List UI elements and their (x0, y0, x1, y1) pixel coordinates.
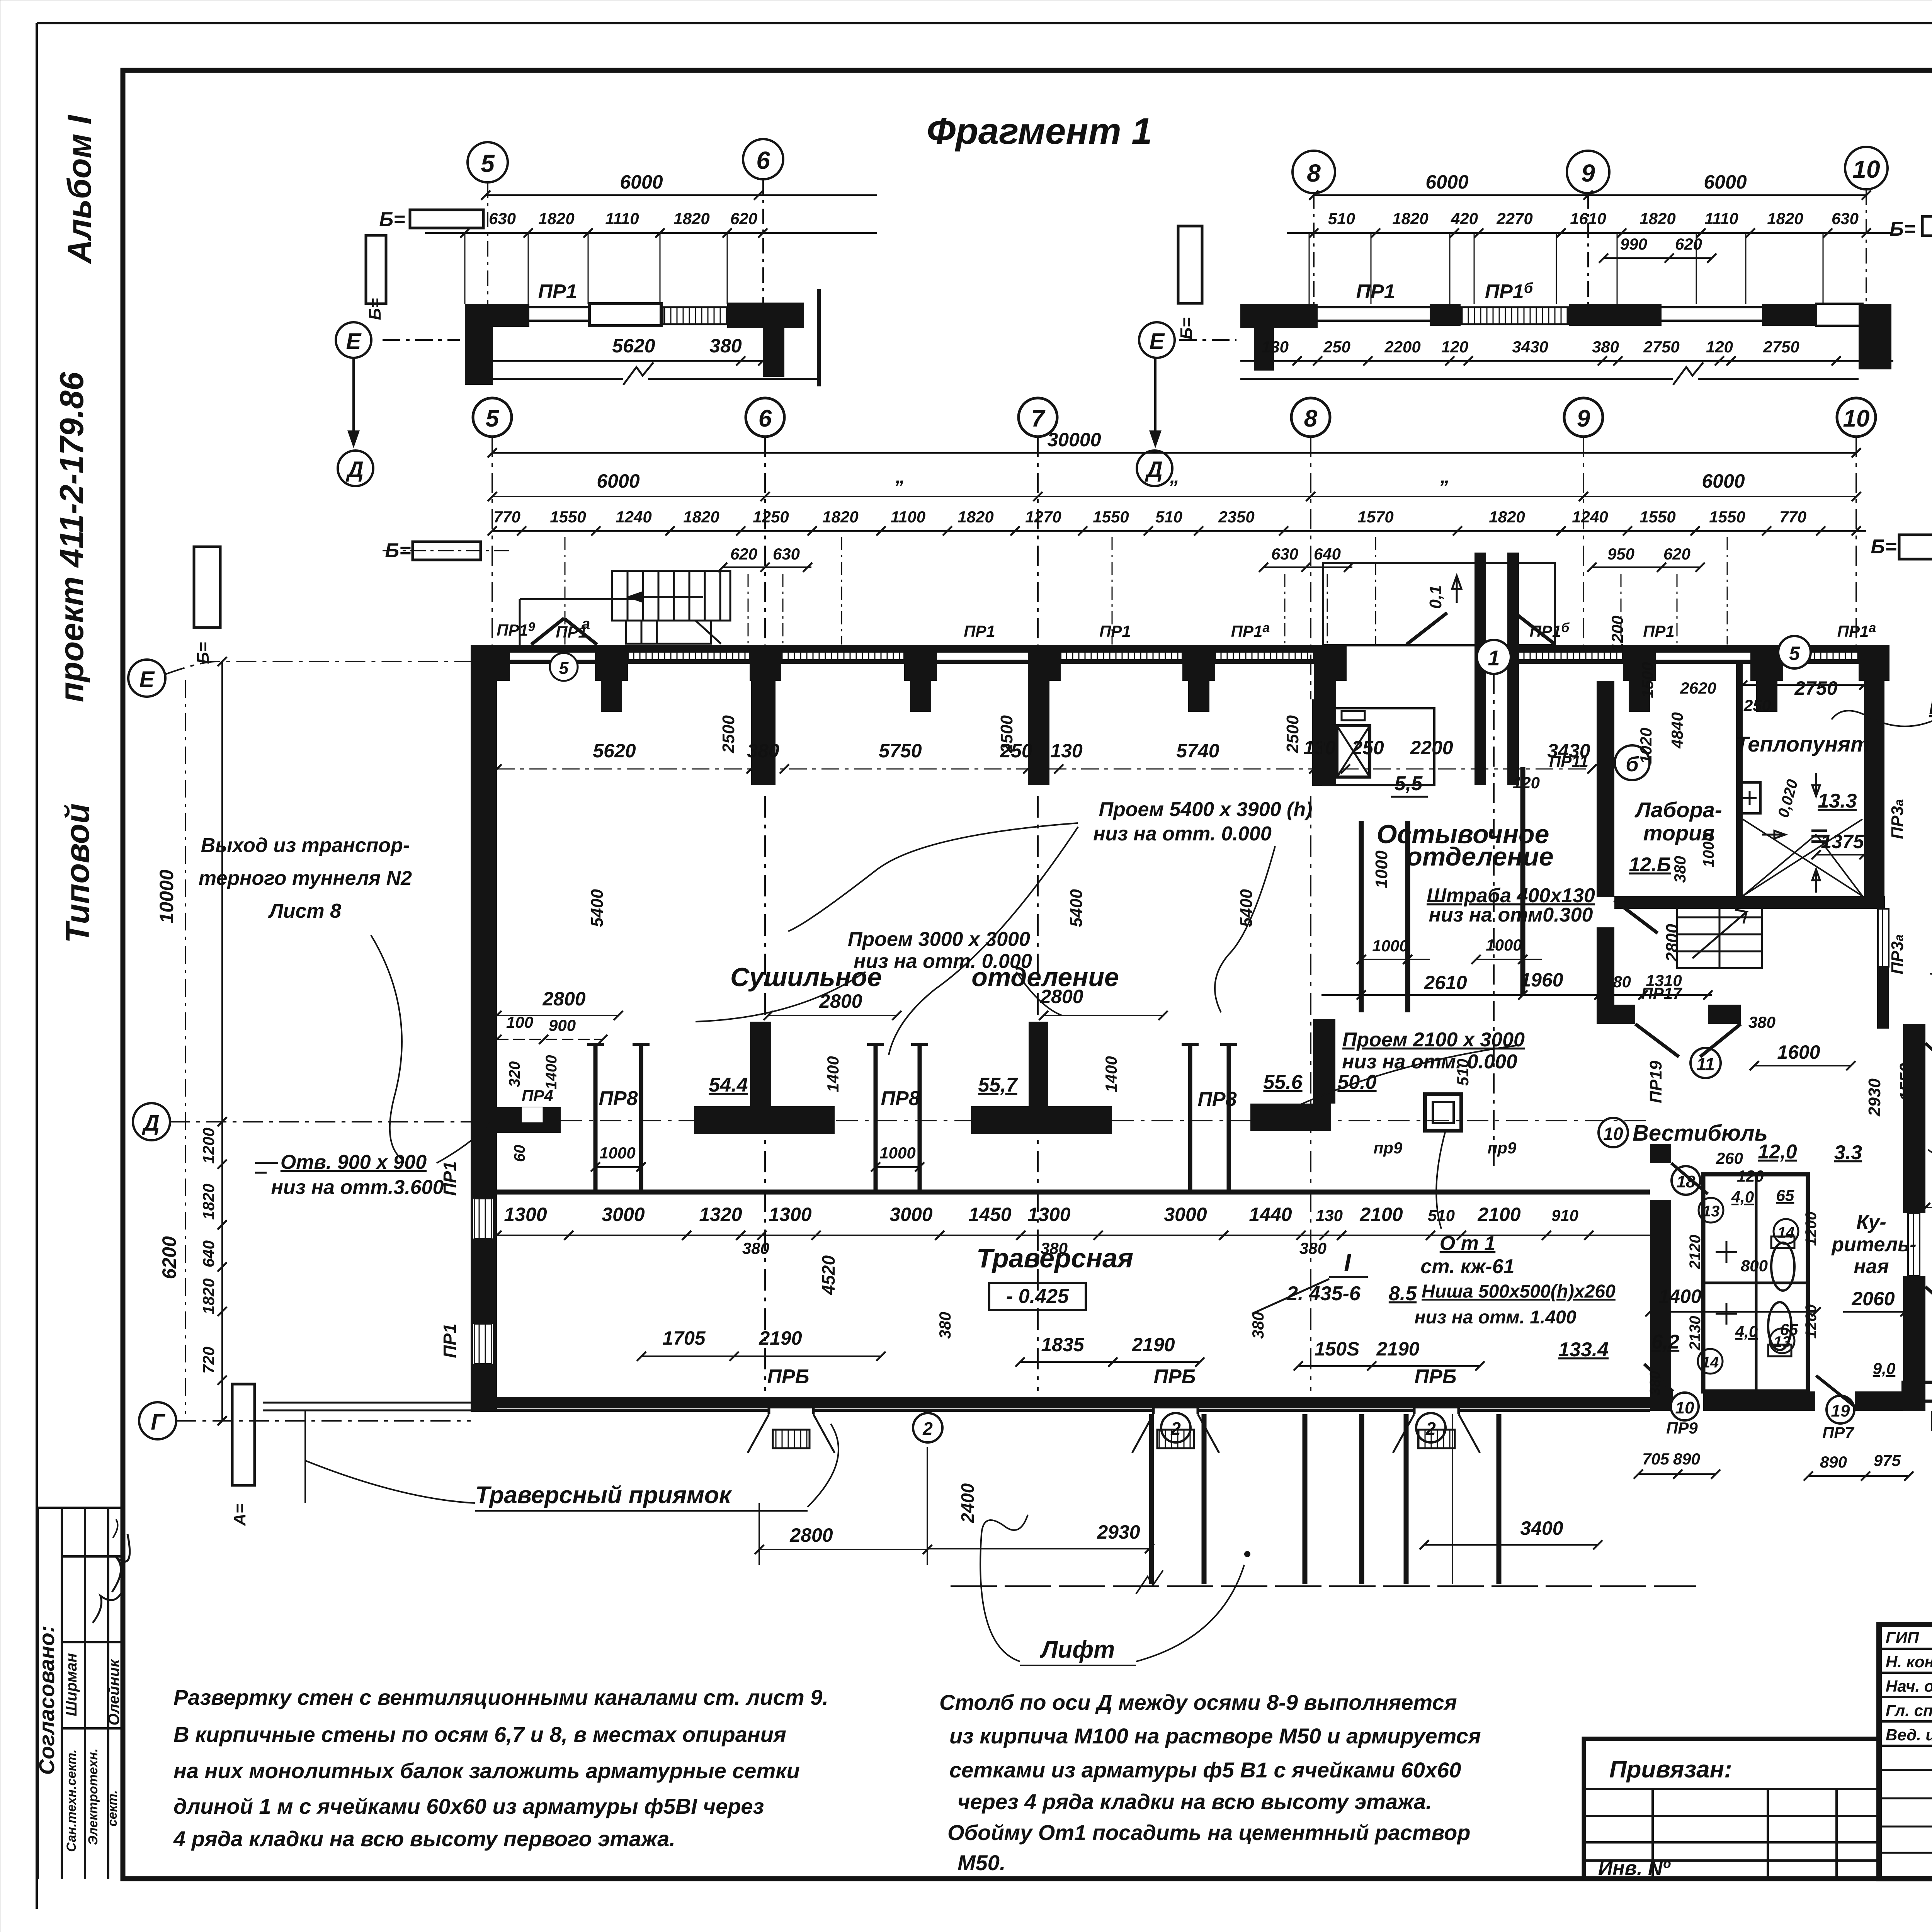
outside stair top-left (612, 571, 730, 644)
svg-text:420: 420 (1451, 209, 1478, 228)
Привязан box (1584, 1739, 1879, 1879)
svg-text:1000: 1000 (1486, 936, 1522, 954)
svg-text:120: 120 (1706, 338, 1733, 356)
axis circle Е (128, 660, 165, 697)
svg-text:А=: А= (230, 1503, 249, 1526)
svg-text:6: 6 (756, 146, 770, 174)
svg-text:ПР9: ПР9 (1666, 1419, 1698, 1437)
svg-text:5: 5 (486, 405, 500, 432)
svg-text:6000: 6000 (620, 171, 663, 193)
svg-text:3400: 3400 (1520, 1517, 1563, 1539)
svg-text:6000: 6000 (597, 470, 639, 492)
entrance canopy outline (1323, 563, 1555, 645)
svg-text:низ на отм. 1.400: низ на отм. 1.400 (1415, 1307, 1577, 1328)
ПР8 post pair 2 (876, 1044, 920, 1190)
svg-text:990: 990 (1620, 235, 1647, 253)
svg-text:1550: 1550 (1709, 508, 1745, 526)
svg-text:ритель-: ритель- (1831, 1233, 1916, 1256)
svg-text:2350: 2350 (1218, 508, 1254, 526)
svg-text:ГИП: ГИП (1886, 1628, 1919, 1646)
svg-text:Б=: Б= (379, 208, 405, 231)
right wall strip plan (1309, 233, 1823, 304)
svg-text:630: 630 (773, 545, 800, 563)
svg-text:1300: 1300 (1027, 1204, 1070, 1225)
svg-text:Перегородка толщ. 250: Перегородка толщ. 250 (1929, 696, 1932, 719)
svg-text:5: 5 (481, 150, 495, 177)
svg-text:Развертку стен с вентиляцио: Развертку стен с вентиляционными каналам… (173, 1685, 828, 1709)
svg-text:Б=: Б= (366, 298, 384, 320)
svg-text:320: 320 (506, 1061, 523, 1087)
svg-text:150S: 150S (1315, 1338, 1360, 1360)
svg-text:2120: 2120 (1687, 1235, 1704, 1270)
svg-text:1110: 1110 (1704, 209, 1738, 228)
svg-text:1820: 1820 (1392, 209, 1428, 228)
svg-text:1820: 1820 (1767, 209, 1803, 228)
svg-text:1820: 1820 (538, 209, 574, 228)
vestibule top wall with door 11 (1597, 1005, 1635, 1024)
dim 6000 row (492, 496, 1856, 497)
dashed approach line top-left (520, 599, 643, 649)
svg-text:380: 380 (1299, 1239, 1327, 1257)
svg-text:„: „ (1440, 466, 1450, 487)
grid axis drops (492, 437, 1856, 699)
svg-text:Выход из транспор-: Выход из транспор- (201, 834, 410, 857)
svg-text:2610: 2610 (1423, 972, 1467, 993)
svg-text:1500: 1500 (1638, 662, 1656, 698)
section mark Е Д right (1139, 322, 1175, 358)
axis circle 10 (1845, 147, 1888, 189)
svg-text:ПР19: ПР19 (1646, 1061, 1665, 1103)
axis circle 6 (743, 139, 783, 179)
svg-text:2400: 2400 (957, 1483, 978, 1523)
svg-text:1960: 1960 (1520, 969, 1563, 991)
svg-text:380: 380 (1671, 856, 1689, 883)
stair right wing (1677, 900, 1762, 968)
grid circle 5 (473, 398, 512, 437)
svg-text:2500: 2500 (719, 715, 738, 753)
ПР6 openings with funnels (769, 1398, 1459, 1414)
svg-text:60: 60 (511, 1145, 528, 1162)
dim 6000 6000 (1314, 194, 1866, 196)
svg-text:тория: тория (1643, 821, 1715, 845)
svg-text:2620: 2620 (1680, 679, 1716, 697)
svg-text:1000: 1000 (1372, 937, 1408, 955)
svg-text:1610: 1610 (1570, 209, 1606, 228)
entrance swings near axis 1 (1406, 613, 1555, 645)
svg-text:120: 120 (1513, 774, 1540, 792)
grid circle 7 (1019, 398, 1057, 437)
dim 6000 (486, 194, 877, 196)
svg-text:ная: ная (1854, 1255, 1889, 1278)
svg-text:380: 380 (742, 1239, 769, 1257)
svg-text:890: 890 (1673, 1450, 1700, 1468)
svg-text:250: 250 (1323, 338, 1350, 356)
axis 1 circle (1477, 640, 1511, 674)
grid circle 6 (746, 398, 784, 437)
circle 6 door mark (1615, 745, 1650, 780)
top wall window hatches (628, 650, 1859, 660)
svg-text:1000: 1000 (879, 1144, 915, 1162)
svg-text:130: 130 (1262, 338, 1289, 356)
svg-text:380: 380 (709, 335, 742, 357)
svg-text:2190: 2190 (759, 1327, 802, 1349)
dim 30000 (492, 452, 1856, 454)
svg-text:380: 380 (747, 740, 779, 762)
T column at axis 6 (694, 1022, 835, 1134)
svg-text:1300: 1300 (504, 1204, 547, 1225)
axis dash lines through hall (765, 796, 1311, 1391)
svg-text:Лист 8: Лист 8 (268, 900, 341, 922)
plus box fixture (1739, 782, 1760, 813)
svg-text:1550: 1550 (1093, 508, 1129, 526)
svg-text:5: 5 (1789, 643, 1800, 664)
svg-text:7: 7 (1031, 405, 1046, 432)
svg-text:133.4: 133.4 (1558, 1338, 1609, 1361)
svg-text:2100: 2100 (1359, 1204, 1403, 1225)
dim 5620 380 (488, 360, 763, 362)
svg-text:6000: 6000 (1702, 470, 1745, 492)
svg-text:1820: 1820 (957, 508, 993, 526)
svg-text:сект.: сект. (105, 1790, 120, 1827)
svg-text:5400: 5400 (1237, 889, 1256, 927)
svg-text:Д: Д (345, 457, 364, 482)
svg-text:Теплопунят: Теплопунят (1735, 732, 1870, 756)
svg-text:65: 65 (1776, 1186, 1794, 1204)
svg-text:8.5: 8.5 (1389, 1282, 1417, 1305)
svg-text:620: 620 (1675, 235, 1702, 253)
circle 10 left (1599, 1118, 1628, 1147)
svg-text:низ на отм0.300: низ на отм0.300 (1429, 904, 1593, 926)
svg-text:3000: 3000 (1164, 1204, 1207, 1225)
svg-text:5: 5 (559, 659, 569, 678)
svg-text:130: 130 (1050, 740, 1083, 762)
svg-text:1835: 1835 (1041, 1334, 1084, 1355)
bottom exterior wall (471, 1397, 1650, 1408)
svg-text:5740: 5740 (1176, 740, 1219, 762)
svg-text:ПР8: ПР8 (599, 1087, 638, 1110)
svg-text:3000: 3000 (889, 1204, 932, 1225)
axis circle Г (139, 1402, 176, 1439)
window axis dashed drops (565, 537, 1727, 645)
svg-text:Альбом I: Альбом I (61, 114, 98, 264)
svg-text:55.6: 55.6 (1263, 1071, 1303, 1094)
svg-text:4,0: 4,0 (1735, 1322, 1758, 1340)
svg-text:6200: 6200 (158, 1236, 180, 1279)
svg-text:Ниша 500х500(h)х260: Ниша 500х500(h)х260 (1422, 1281, 1616, 1302)
svg-text:1240: 1240 (1572, 508, 1608, 526)
WC block (1703, 1174, 1808, 1391)
svg-text:800: 800 (1741, 1257, 1768, 1275)
svg-text:1000: 1000 (599, 1144, 635, 1162)
vertical dim line left (221, 662, 223, 1421)
svg-text:1450: 1450 (968, 1204, 1011, 1225)
svg-text:5620: 5620 (612, 335, 655, 357)
svg-text:1570: 1570 (1357, 508, 1393, 526)
svg-text:2190: 2190 (1376, 1338, 1419, 1360)
svg-text:5620: 5620 (593, 740, 636, 762)
Om1 square column (1425, 1094, 1461, 1131)
ПР8 post pair 3 (1190, 1044, 1229, 1190)
svg-text:проект 411-2-179.86: проект 411-2-179.86 (53, 372, 90, 702)
svg-text:Гл. спец: Гл. спец (1886, 1701, 1932, 1719)
svg-text:1200: 1200 (1803, 1304, 1820, 1339)
svg-text:510: 510 (1155, 508, 1182, 526)
svg-text:1000: 1000 (1372, 850, 1391, 888)
svg-text:1705: 1705 (662, 1327, 706, 1349)
svg-text:1600: 1600 (1777, 1041, 1820, 1063)
svg-text:1550: 1550 (550, 508, 586, 526)
svg-text:3.3: 3.3 (1834, 1141, 1862, 1164)
svg-text:9: 9 (1577, 405, 1590, 432)
svg-text:ПРБ: ПРБ (1415, 1366, 1457, 1388)
svg-text:250: 250 (1000, 740, 1032, 762)
svg-text:Ширман: Ширман (63, 1653, 80, 1716)
svg-text:1400: 1400 (1102, 1056, 1120, 1092)
svg-text:720: 720 (199, 1347, 218, 1374)
svg-text:11: 11 (1696, 1054, 1715, 1074)
svg-text:Е: Е (346, 329, 362, 354)
svg-text:2: 2 (922, 1418, 933, 1439)
svg-text:2190: 2190 (1131, 1334, 1175, 1355)
axis 1 tower walls (1475, 553, 1486, 785)
svg-text:ПР1: ПР1 (1356, 281, 1395, 303)
svg-text:Лифт: Лифт (1040, 1636, 1115, 1663)
svg-text:Б=: Б= (1177, 318, 1196, 340)
svg-text:Электротехн.: Электротехн. (86, 1748, 100, 1845)
svg-text:2800: 2800 (1663, 924, 1682, 962)
svg-text:13.3: 13.3 (1818, 790, 1857, 812)
svg-text:1110: 1110 (605, 209, 639, 228)
ПР8 post pair 1 (595, 1044, 641, 1190)
svg-text:2: 2 (1170, 1418, 1181, 1439)
tall Б niche far left (194, 547, 220, 628)
svg-text:2930: 2930 (1097, 1521, 1140, 1543)
2 circles (913, 1413, 942, 1442)
svg-text:4,0: 4,0 (1731, 1188, 1754, 1206)
svg-text:2800: 2800 (542, 988, 585, 1010)
svg-text:ПР17: ПР17 (1641, 984, 1683, 1002)
svg-text:низ на отт. 0.000: низ на отт. 0.000 (854, 950, 1032, 973)
svg-text:5400: 5400 (588, 889, 607, 927)
svg-text:2750: 2750 (1794, 677, 1837, 699)
svg-text:Привязан:: Привязан: (1609, 1756, 1732, 1783)
svg-text:120: 120 (1441, 338, 1468, 356)
svg-text:5400: 5400 (1067, 889, 1086, 927)
svg-text:260: 260 (1716, 1149, 1743, 1167)
hall right wall (1597, 681, 1614, 897)
svg-text:380: 380 (1592, 338, 1619, 356)
svg-text:6000: 6000 (1425, 171, 1468, 193)
svg-text:5750: 5750 (879, 740, 922, 762)
chain under interior wall (497, 1235, 1650, 1236)
svg-text:510: 510 (1428, 1206, 1455, 1225)
bottom wall of block (1650, 1391, 1673, 1411)
svg-text:а: а (582, 616, 590, 633)
svg-text:1400: 1400 (543, 1055, 560, 1090)
svg-text:10: 10 (1675, 1398, 1694, 1417)
sub dims 620 630 pairs (723, 566, 1700, 568)
svg-text:10: 10 (1852, 155, 1880, 183)
svg-text:975: 975 (1874, 1451, 1901, 1469)
door swing marks at top-left entrance (531, 618, 597, 645)
svg-text:12,0: 12,0 (1758, 1141, 1797, 1163)
axis circle 8 (1293, 151, 1335, 193)
svg-text:6,2: 6,2 (1651, 1331, 1679, 1353)
svg-text:380: 380 (936, 1312, 954, 1339)
svg-text:2750: 2750 (1763, 338, 1799, 356)
lab walls (1614, 896, 1885, 909)
tall niche rect (366, 235, 386, 304)
svg-text:Вед. инж.: Вед. инж. (1886, 1726, 1932, 1744)
svg-text:Б=: Б= (1871, 536, 1896, 558)
svg-text:8: 8 (1304, 405, 1318, 432)
svg-text:1100: 1100 (891, 508, 925, 526)
svg-text:Б=: Б= (194, 642, 213, 664)
porch strip bottom left (232, 1384, 255, 1485)
svg-text:1200: 1200 (1803, 1212, 1820, 1246)
svg-text:ПР7: ПР7 (1822, 1423, 1854, 1442)
svg-text:ПР1: ПР1 (1643, 622, 1675, 640)
svg-text:4 ряда кладки на всю высот: 4 ряда кладки на всю высоту первого этаж… (173, 1827, 675, 1851)
svg-text:I: I (1344, 1249, 1351, 1277)
svg-text:ПР1: ПР1 (440, 1323, 460, 1358)
svg-text:сетками из арматуры ф5 В1: сетками из арматуры ф5 В1 с ячейками 60х… (949, 1758, 1461, 1782)
svg-text:1440: 1440 (1249, 1204, 1292, 1225)
svg-text:1: 1 (1488, 646, 1500, 670)
svg-text:1200: 1200 (199, 1128, 218, 1163)
svg-text:1550: 1550 (1639, 508, 1675, 526)
svg-text:Олейник: Олейник (105, 1659, 122, 1726)
section mark Е over Д (336, 322, 371, 358)
svg-text:Лабора-: Лабора- (1634, 798, 1722, 822)
svg-text:низ на отт.3.600: низ на отт.3.600 (271, 1176, 444, 1199)
right wall of block (1903, 1024, 1925, 1213)
svg-text:низ на отт. 0.000: низ на отт. 0.000 (1093, 823, 1272, 845)
svg-text:65: 65 (1780, 1320, 1798, 1338)
svg-text:10: 10 (1603, 1124, 1623, 1144)
svg-text:6000: 6000 (1704, 171, 1747, 193)
svg-text:Г: Г (151, 1410, 165, 1435)
dim chain 630 1820 1110 1820 620 (425, 232, 877, 234)
svg-text:пр9: пр9 (1488, 1139, 1517, 1157)
svg-text:Вестибюль: Вестибюль (1633, 1121, 1768, 1146)
svg-text:1400: 1400 (824, 1056, 842, 1092)
svg-text:Б=: Б= (1889, 218, 1915, 240)
approval stamp table bottom-left (38, 1508, 123, 1879)
svg-text:770: 770 (493, 508, 520, 526)
svg-text:пр9: пр9 (1374, 1139, 1403, 1157)
svg-text:1820: 1820 (199, 1278, 218, 1314)
svg-text:Инв. Nº: Инв. Nº (1598, 1857, 1671, 1879)
dims under right strip (1240, 360, 1893, 362)
svg-text:9,0: 9,0 (1873, 1359, 1895, 1378)
svg-text:1820: 1820 (1639, 209, 1675, 228)
lift shaft (1323, 708, 1434, 785)
svg-text:М50.: М50. (957, 1850, 1006, 1875)
svg-text:14: 14 (1777, 1224, 1795, 1241)
svg-text:910: 910 (1551, 1206, 1578, 1225)
interior long wall (497, 1190, 1650, 1195)
svg-text:14: 14 (1702, 1354, 1719, 1371)
axis circle 9 (1567, 151, 1609, 193)
svg-text:2750: 2750 (1643, 338, 1679, 356)
svg-text:890: 890 (1820, 1453, 1847, 1471)
svg-text:510: 510 (1328, 209, 1355, 228)
svg-text:54.4: 54.4 (709, 1074, 748, 1096)
axis circle 5 (468, 142, 508, 182)
svg-text:1820: 1820 (822, 508, 858, 526)
svg-text:ПРБ: ПРБ (767, 1366, 810, 1388)
drain X (1743, 819, 1862, 896)
svg-text:Д: Д (141, 1111, 160, 1136)
svg-text:8: 8 (1307, 159, 1321, 187)
svg-text:55,7: 55,7 (978, 1074, 1018, 1096)
svg-text:620: 620 (730, 545, 757, 563)
top exterior wall band (471, 645, 1889, 653)
svg-text:через 4 ряда кладки на всю: через 4 ряда кладки на всю высоту этажа. (957, 1789, 1432, 1814)
lower face line with break (493, 362, 819, 385)
svg-text:Е: Е (1150, 329, 1165, 354)
svg-text:Обойму От1 посадить на цем: Обойму От1 посадить на цементный раствор (947, 1820, 1470, 1845)
dims under top wall 5620 380 5750 ... (497, 772, 1306, 773)
svg-text:ПРБ: ПРБ (1154, 1366, 1196, 1388)
T column at axis 8 (1250, 1019, 1335, 1131)
svg-text:О m 1: О m 1 (1440, 1232, 1496, 1255)
channel walls axis 1 (1361, 767, 1523, 1012)
svg-text:10: 10 (1843, 405, 1870, 432)
svg-text:2060: 2060 (1851, 1288, 1895, 1310)
svg-text:12.Б: 12.Б (1629, 854, 1671, 876)
svg-text:620: 620 (1663, 545, 1690, 563)
porch slab right (1903, 1382, 1932, 1401)
svg-text:640: 640 (1314, 545, 1341, 563)
svg-text:900: 900 (549, 1016, 576, 1034)
svg-text:1820: 1820 (199, 1184, 218, 1219)
svg-text:950: 950 (1607, 545, 1634, 563)
svg-text:1240: 1240 (616, 508, 651, 526)
svg-text:1820: 1820 (683, 508, 719, 526)
svg-text:2200: 2200 (1384, 338, 1420, 356)
svg-text:Нач. отд.: Нач. отд. (1886, 1677, 1932, 1695)
signature scribbles (93, 1588, 124, 1623)
svg-text:Типовой: Типовой (59, 803, 96, 943)
svg-text:1020: 1020 (1637, 728, 1655, 764)
svg-text:Е: Е (139, 667, 155, 692)
svg-text:ПР8: ПР8 (881, 1087, 920, 1110)
svg-text:380: 380 (1647, 1371, 1663, 1395)
svg-text:ПР1: ПР1 (1099, 622, 1131, 640)
svg-text:1270: 1270 (1025, 508, 1061, 526)
block left wall (1650, 1144, 1671, 1163)
svg-text:2200: 2200 (1410, 737, 1453, 759)
svg-text:1820: 1820 (1489, 508, 1525, 526)
svg-text:2270: 2270 (1496, 209, 1532, 228)
svg-text:30000: 30000 (1047, 429, 1101, 451)
svg-text:3000: 3000 (602, 1204, 645, 1225)
T column at axis 7 (971, 1022, 1112, 1134)
niche pier on left wall (497, 1107, 561, 1133)
svg-text:1820: 1820 (673, 209, 709, 228)
axis 5a circle on wall (1778, 636, 1811, 668)
svg-text:2800: 2800 (1040, 986, 1083, 1007)
svg-text:6: 6 (759, 405, 772, 432)
svg-text:2130: 2130 (1687, 1316, 1704, 1351)
svg-text:2: 2 (1425, 1418, 1436, 1439)
svg-text:2930: 2930 (1865, 1078, 1884, 1117)
detailed chain (492, 530, 1866, 532)
svg-text:4520: 4520 (818, 1255, 838, 1295)
svg-text:2800: 2800 (819, 990, 862, 1012)
